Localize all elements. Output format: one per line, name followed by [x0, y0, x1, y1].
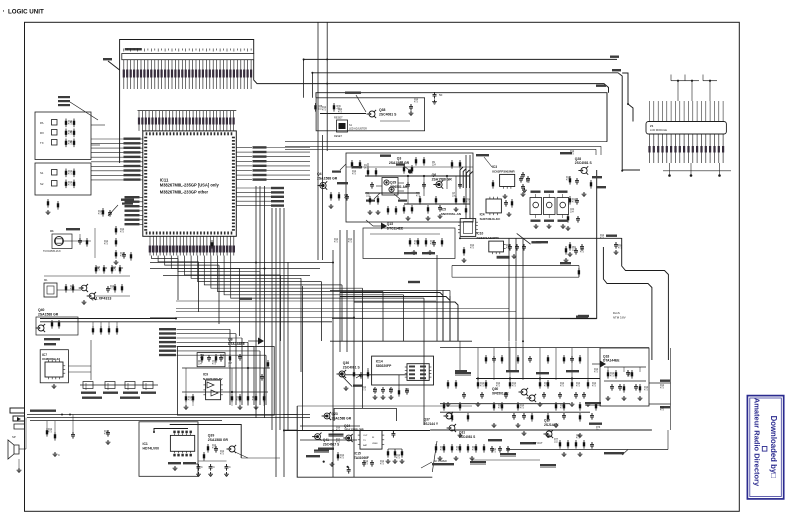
svg-text:DTA144EE: DTA144EE [228, 342, 246, 346]
bus pair wires left [40, 319, 332, 322]
wire staircase from IC11 bottom [152, 256, 425, 426]
ground Q36 [345, 386, 347, 388]
IC14 chip [407, 364, 429, 381]
svg-text:2SA1588 GR: 2SA1588 GR [432, 177, 453, 181]
labels under Q41 [306, 448, 334, 458]
ground under R27 [115, 260, 117, 262]
Q36 rails [340, 358, 432, 388]
switch S4 [52, 170, 58, 176]
option block label [121, 199, 134, 201]
IC9 inner box parts [198, 354, 242, 368]
watermark middle square glyph [762, 447, 767, 452]
svg-text:Q8: Q8 [228, 338, 233, 342]
IC1 block outline [139, 422, 241, 477]
transistor Q39 [229, 446, 235, 452]
filter bank caps left [521, 172, 526, 197]
capacitor C41 [107, 286, 109, 289]
options box B [35, 163, 91, 195]
IC9 opamp chip [206, 380, 221, 400]
svg-text:Q4: Q4 [317, 172, 322, 176]
capacitor C30 [79, 238, 81, 241]
svg-text:HD74LV00: HD74LV00 [143, 447, 160, 451]
IC11 left pin labels upper [91, 138, 143, 181]
transistor Q3 body [396, 164, 412, 174]
transistor Q4 [320, 182, 326, 188]
wires af area [19, 415, 73, 469]
svg-text:M38267M8L-233GP other: M38267M8L-233GP other [160, 189, 209, 194]
IC9 inner box [197, 353, 225, 367]
Q40 box [36, 317, 78, 335]
LCD ground bus [663, 163, 731, 177]
svg-text:X1M80SB-33: X1M80SB-33 [42, 357, 60, 361]
crystal X1 [43, 228, 80, 253]
wire Q38 out [380, 120, 410, 122]
transistor Q23 [324, 413, 330, 419]
resistor R70 [46, 428, 48, 430]
svg-text:OUT: OUT [363, 435, 368, 437]
IC3 chip [500, 174, 515, 186]
pointer diagonals Q29 [332, 164, 407, 202]
options box A [35, 112, 91, 160]
svg-text:SN0726SL-AN: SN0726SL-AN [441, 212, 461, 216]
IC11 bottom pin comb [149, 236, 235, 255]
ground C95 [615, 250, 617, 252]
Q13 parts below [370, 234, 443, 255]
Q18 rails [604, 367, 646, 381]
svg-text:BAT: BAT [363, 444, 368, 447]
Q18 block outline [600, 348, 649, 406]
ground cluster a [331, 462, 333, 464]
svg-text:XC62FP3002MR: XC62FP3002MR [492, 169, 516, 173]
capacitor C90 [410, 104, 412, 107]
transistor Q36 [339, 371, 345, 377]
resistor R25 [115, 226, 117, 228]
IC1 chip [170, 431, 194, 457]
wire left options [35, 112, 105, 205]
svg-text:Z1: Z1 [650, 124, 654, 128]
svg-text:Q40: Q40 [38, 308, 45, 312]
svg-text:Q28: Q28 [575, 157, 581, 161]
mid horizontal long wires lower [150, 298, 516, 318]
resistor R27 [115, 250, 117, 252]
wires cluster join [283, 415, 297, 431]
rail rectangle mid right [452, 262, 580, 277]
svg-text:2SC4081 S: 2SC4081 S [575, 161, 593, 165]
IC11 right pin label column [236, 146, 310, 181]
resistor R51 [58, 320, 60, 322]
wire Q39 to bus [235, 452, 280, 458]
Q13 block box [363, 228, 455, 259]
jack labels [30, 410, 71, 416]
wire feeds to LCD [622, 73, 717, 104]
capacitor row under IC1 [196, 461, 231, 477]
IC9 inner rails [182, 367, 270, 394]
svg-text:2SA1588 GR: 2SA1588 GR [332, 416, 352, 420]
Q30 net name labels [455, 372, 601, 467]
component small box M1 [44, 283, 57, 297]
ground C72 [107, 440, 109, 442]
parts below options box B [46, 199, 60, 215]
IC15 cluster rails [300, 426, 402, 452]
svg-text:LOGIC UNIT: LOGIC UNIT [8, 9, 44, 16]
bottom labels diag [421, 460, 454, 468]
Q30 area parts grid [443, 355, 597, 438]
svg-text:C: C [58, 453, 60, 457]
IC15 side parts [323, 431, 405, 474]
capacitor C70 [72, 432, 74, 435]
capacitor C25 [123, 252, 125, 255]
bottom parts row centre [435, 439, 543, 461]
LCD lower pin comb [648, 134, 724, 163]
LCD wire bundle [650, 101, 724, 122]
svg-text:C: C [201, 466, 203, 469]
svg-text:IC1: IC1 [143, 442, 148, 446]
bottom long wires [284, 406, 652, 460]
svg-text:SP: SP [12, 435, 16, 439]
IC7 chip [45, 362, 63, 377]
svg-text:Amateur Radio Directory: Amateur Radio Directory [753, 398, 762, 487]
ground J1 [18, 468, 20, 470]
labels around Q17 [554, 423, 602, 444]
IC9 block outline [177, 347, 274, 416]
svg-text:TA31066F: TA31066F [354, 456, 369, 460]
AF output bus wires [27, 415, 310, 421]
bus wire top third [254, 60, 609, 93]
transistor Q11a [81, 285, 87, 291]
svg-text:Q39: Q39 [208, 434, 215, 438]
svg-text:TCXO4535-16.8: TCXO4535-16.8 [43, 250, 61, 253]
connector CN1 outline [120, 40, 254, 164]
ground IC7 [53, 384, 55, 386]
svg-text:S80220FP: S80220FP [376, 364, 392, 368]
Q18 parts [606, 370, 643, 401]
svg-text:·: · [3, 9, 5, 16]
watermark box [747, 396, 783, 499]
label arrow IC3 [476, 154, 492, 167]
transistor Q30b [529, 395, 535, 401]
svg-text:SP OUT: SP OUT [533, 441, 543, 445]
labels Q30 area [455, 370, 579, 374]
svg-text:2SA1588 GR: 2SA1588 GR [317, 176, 338, 180]
resistor R82 [203, 452, 205, 454]
wire diag bottom [432, 441, 437, 472]
S-curve wires to Q18 [603, 238, 668, 360]
svg-text:2SJ144 Y: 2SJ144 Y [424, 422, 439, 426]
resistor R20 [102, 208, 104, 210]
svg-text:AF POWER: AF POWER [434, 460, 447, 463]
capacitor C60 [261, 374, 263, 377]
Q36 diagonal pointer [342, 374, 363, 386]
box top edge y290 [330, 281, 450, 341]
svg-text:TX: TX [40, 141, 44, 145]
connector CN1 pins [123, 49, 253, 90]
Q4 bias parts [329, 192, 349, 209]
svg-text:DTC114EE: DTC114EE [387, 226, 404, 230]
svg-text:2SA1588 GR: 2SA1588 GR [38, 313, 59, 317]
resistor R80 [207, 444, 209, 446]
nested corner wires left of Q28 [460, 167, 473, 188]
capacitor C21 [109, 210, 111, 213]
Q3 block outline [346, 153, 473, 222]
svg-text:IC14: IC14 [376, 360, 383, 364]
IC11 right lower labels [236, 187, 284, 207]
bus triple lines middle [285, 142, 607, 155]
Q30 area rails [440, 348, 649, 413]
transistor Q37 [446, 413, 452, 419]
vertical bus lines centre [256, 22, 327, 477]
svg-text:RESET: RESET [334, 135, 343, 138]
svg-text:LED ADJUSTER: LED ADJUSTER [349, 128, 367, 131]
bus labels left mid [44, 338, 60, 345]
resistor R42 [114, 284, 116, 286]
switch S3 [52, 140, 58, 146]
jack connector J1 [10, 408, 25, 429]
resistor R90 [337, 452, 339, 454]
Q29 dual transistor box [376, 178, 404, 196]
svg-text:X1: X1 [50, 229, 54, 233]
net labels underlined IC15 [314, 434, 344, 453]
wires Q11 area [44, 276, 130, 296]
transistor Q41 [315, 434, 321, 440]
wires crystal area [72, 228, 95, 258]
svg-text:Downloaded by□: Downloaded by□ [769, 416, 778, 479]
svg-text:S2: S2 [40, 182, 44, 186]
connector CN1 header [122, 54, 254, 60]
svg-text:R: R [196, 462, 198, 466]
ground Q11 [83, 300, 85, 302]
Q13 arrow [366, 220, 387, 230]
IC11 inner pin ticks [144, 132, 235, 234]
transistor Q34 [346, 435, 352, 441]
resistor R71 [54, 432, 56, 434]
svg-text:LCD MODULE: LCD MODULE [650, 128, 667, 132]
svg-text:Q13: Q13 [387, 222, 393, 226]
IC15 chip [360, 431, 382, 450]
svg-text:SH0733HG-KC: SH0733HG-KC [480, 217, 502, 221]
connector CN1 label [125, 48, 142, 50]
cluster box bottom centre [297, 406, 432, 477]
wires IC7 out [68, 340, 91, 380]
capacitor C80 [215, 446, 217, 449]
svg-text:PA: PA [40, 121, 44, 125]
svg-text:R: R [106, 267, 108, 270]
transistor Q30a [521, 389, 527, 395]
cluster inner box top [334, 409, 396, 422]
resistor R41 [72, 284, 74, 286]
labels under diode row [82, 397, 140, 399]
IC3 parts [492, 176, 530, 199]
svg-text:DxxS: DxxS [613, 311, 620, 315]
svg-text:M1: M1 [44, 278, 48, 282]
series diode row D10-D13 [80, 382, 158, 394]
Q36 block box [372, 356, 434, 385]
svg-text:XC6371A330PR: XC6371A330PR [477, 236, 500, 240]
svg-text:RESET: RESET [334, 116, 343, 120]
wires Q30 area [430, 341, 540, 477]
svg-text:5F: 5F [439, 93, 443, 97]
svg-text:S1: S1 [40, 171, 44, 175]
svg-text:Q11 XP4313: Q11 XP4313 [91, 297, 111, 301]
svg-text:R: R [122, 267, 124, 270]
IC9 inner parts row [184, 394, 266, 410]
Q28 parts [560, 152, 606, 205]
connector CN1 lead label [103, 58, 112, 60]
reset IC box [337, 120, 348, 132]
transistor Q18 arrow [592, 361, 606, 368]
svg-text:Q23: Q23 [332, 412, 338, 416]
capacitor C72 [107, 430, 109, 433]
speaker SP1 [8, 435, 26, 459]
Q3 block internal rails [365, 163, 470, 204]
labels under IC1 [168, 462, 198, 466]
svg-text:RX: RX [40, 131, 44, 135]
svg-text:Q38: Q38 [379, 108, 386, 112]
signal name labels fan [159, 328, 266, 405]
transistor Q17 [546, 431, 552, 437]
IC10 chip [489, 241, 504, 252]
svg-text:2SC4081 S: 2SC4081 S [343, 365, 361, 369]
svg-text:Q36: Q36 [343, 361, 349, 365]
bus wire y238 [460, 235, 622, 239]
ground IC1 a [174, 466, 176, 468]
Q36 parts [353, 370, 409, 400]
IC7 block outline [40, 350, 68, 383]
filter bank cells [530, 191, 569, 222]
svg-text:C: C [229, 466, 231, 469]
Q30 region box [330, 340, 472, 342]
horizontal bus pair mid [150, 263, 333, 276]
Q3 block parts [337, 155, 467, 221]
resistor R43 [121, 284, 123, 286]
resistor drop row on bus [92, 322, 118, 335]
IC4 parts [504, 199, 513, 217]
Q17 parts right [559, 440, 594, 457]
resistor R28 [130, 252, 132, 254]
pointer diagonal right of IC10 [517, 233, 542, 244]
svg-text:DTA144EE: DTA144EE [603, 359, 620, 363]
parts right of IC10 [568, 242, 584, 257]
svg-text:2SC4081 S: 2SC4081 S [379, 113, 397, 117]
IC4 chip [486, 199, 501, 213]
capacitor IF top [434, 92, 436, 95]
switch S5 [52, 181, 58, 187]
bus wire top second [312, 73, 622, 170]
resistor R138 [315, 103, 317, 105]
battery label arrow [345, 92, 361, 94]
LCD side entry wires [622, 103, 640, 170]
ground speaker net [54, 452, 56, 454]
parts left of box edge 596 [564, 209, 585, 263]
staircase wires mid right [340, 293, 458, 342]
transistor Q38 [369, 111, 375, 117]
triple bar marks left of comb [58, 96, 98, 120]
IC10 under label [497, 256, 510, 259]
svg-text:M38267M8L-235GP [USA] only: M38267M8L-235GP [USA] only [160, 182, 220, 187]
IC10 parts [462, 241, 548, 263]
transistor Q8 arrow [248, 338, 264, 345]
ground filter bank [534, 224, 566, 229]
IC11 upper pin comb [138, 111, 237, 131]
big routing box top [316, 93, 607, 142]
bottom rail far right [507, 430, 668, 455]
cap C95 on bus [615, 242, 617, 245]
resistor R31 [86, 238, 88, 240]
vertical wire right of Q30 block [560, 170, 597, 319]
IC11 microcontroller body [143, 131, 237, 236]
long vertical buses right of centre [333, 155, 523, 477]
resistor R26 [115, 238, 117, 240]
svg-text:VREF: VREF [372, 443, 378, 445]
IC11 left pin labels lower [125, 196, 143, 225]
resistor R40 [65, 284, 67, 286]
bus wire VDD top [304, 59, 617, 61]
resistor R50 [51, 320, 53, 322]
svg-text:Q3: Q3 [397, 157, 402, 161]
long wire y318 [332, 315, 597, 319]
Q18 out wires [649, 348, 671, 430]
resistor R60 right of IC9 [267, 360, 269, 362]
Q38 block outline [316, 98, 425, 131]
IC5 chip [460, 219, 476, 237]
transistor Q28 [581, 167, 587, 173]
svg-text:2SA1588 GR: 2SA1588 GR [208, 438, 229, 442]
transistor Q11b [89, 293, 95, 299]
tiny value labels pass [48, 99, 665, 466]
Q38 base wire [320, 113, 366, 115]
switch S2 [52, 130, 58, 136]
switch S1 [52, 120, 58, 126]
svg-text:C: C [213, 466, 215, 469]
transistor Q6 [436, 181, 442, 187]
resistor row R45-R48 [95, 265, 124, 274]
svg-text:NTM 3.8V: NTM 3.8V [613, 316, 626, 320]
IC1 top feed wire [153, 429, 188, 434]
LCD module Z1 [646, 122, 726, 135]
transistor Q31 [449, 425, 455, 431]
transistor Q40 [38, 325, 44, 331]
resistor R21 [211, 240, 213, 242]
resistor R139 [333, 103, 335, 105]
